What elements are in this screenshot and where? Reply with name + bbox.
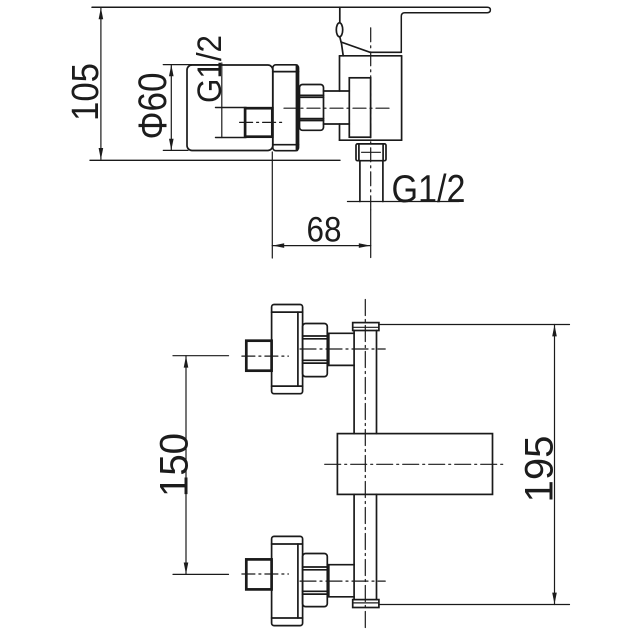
riser pipe right edge lower bbox=[376, 494, 378, 599]
lever front edge above pivot bbox=[339, 7, 341, 23]
dim 68 arrow left bbox=[273, 243, 285, 248]
escutcheon flange bbox=[273, 65, 299, 151]
mixer body block bbox=[337, 434, 492, 495]
knob face inner line bbox=[297, 312, 299, 386]
dim 68 arrow right bbox=[359, 243, 371, 248]
riser pipe left edge upper bbox=[353, 331, 355, 434]
dim phi60 bottom extension bbox=[163, 149, 188, 151]
svg-text:G1/2: G1/2 bbox=[191, 35, 229, 103]
valve knob bbox=[272, 536, 303, 625]
dim 150 arrow down bbox=[184, 563, 189, 575]
dim 150 bottom extension bbox=[173, 573, 229, 575]
dim 150 line bbox=[185, 356, 187, 575]
outlet pipe left edge bbox=[359, 161, 361, 202]
riser pipe right edge upper bbox=[376, 331, 378, 434]
flange inner bottom line bbox=[273, 144, 299, 146]
valve cylinder bottom bbox=[327, 564, 354, 566]
body right edge bbox=[401, 56, 403, 140]
body bottom edge bbox=[340, 139, 402, 141]
hex coupling nut bbox=[300, 85, 324, 131]
stem tick top bbox=[216, 107, 247, 109]
flange thick right face bbox=[296, 66, 299, 151]
dim 195 bottom extension bbox=[380, 604, 570, 606]
cartridge rectangle bbox=[349, 78, 370, 137]
stem centerline bbox=[242, 355, 289, 357]
outlet nut cross line bbox=[362, 151, 381, 153]
flange inner top line bbox=[273, 71, 299, 73]
inlet cylinder bottom bbox=[324, 123, 350, 125]
dim 68 extension left bbox=[271, 152, 273, 258]
handle knob bbox=[187, 65, 273, 151]
knob cap top line bbox=[272, 617, 303, 619]
dim phi60 line bbox=[170, 65, 172, 150]
knob cap top line bbox=[272, 311, 303, 313]
hex facet lines bbox=[303, 335, 328, 337]
bottom valve group (mirror) bbox=[242, 536, 385, 625]
stem tick bottom bbox=[216, 137, 247, 139]
body vertical centerline bbox=[370, 28, 372, 210]
wall top extension line and lever top edge bbox=[92, 7, 490, 52]
dim 195 arrow down bbox=[552, 593, 557, 605]
knob cap bottom line bbox=[272, 543, 303, 545]
dim 195 arrow up bbox=[552, 325, 557, 337]
valve hex nut bbox=[303, 324, 328, 377]
valve axis centerline bbox=[300, 348, 385, 350]
pipe bottom cap inner line bbox=[353, 602, 379, 604]
handle square stem bbox=[245, 108, 272, 137]
dim phi60 top extension bbox=[163, 64, 222, 66]
valve square stem bbox=[246, 559, 271, 589]
hex facet lines bbox=[303, 593, 328, 595]
svg-text:195: 195 bbox=[518, 436, 562, 503]
dim 105 arrow down bbox=[99, 148, 104, 160]
valve cylinder bottom bbox=[327, 364, 354, 366]
dim 195 line bbox=[554, 325, 556, 605]
outlet nut bbox=[356, 144, 386, 161]
dim 105 line bbox=[100, 8, 102, 159]
svg-text:Φ60: Φ60 bbox=[131, 73, 175, 140]
dim 195 top extension bbox=[380, 324, 570, 326]
valve axis centerline bbox=[284, 107, 389, 109]
lever left edge bbox=[341, 42, 343, 56]
dim phi60 arrow up bbox=[169, 65, 174, 76]
pivot link bbox=[340, 37, 341, 42]
svg-text:G1/2: G1/2 bbox=[392, 168, 466, 211]
svg-text:68: 68 bbox=[307, 211, 342, 250]
G1/2 outlet underline bbox=[348, 201, 460, 203]
valve cylinder joint bbox=[328, 333, 330, 365]
body block centerline bbox=[325, 463, 507, 465]
wall bottom line bbox=[90, 159, 340, 161]
lever pivot ellipse bbox=[336, 23, 342, 37]
stem centerline bbox=[242, 573, 289, 575]
outlet nut facet right bbox=[382, 144, 384, 161]
riser pipe centerline bbox=[364, 300, 366, 631]
G1/2 stem leader vertical bbox=[221, 63, 223, 138]
pipe top cap inner line bbox=[353, 326, 379, 328]
valve hex nut bbox=[303, 554, 328, 607]
knob face inner line bbox=[297, 544, 299, 618]
hex facet lines bbox=[300, 94, 324, 96]
centerline extension for 68 dim bbox=[370, 210, 372, 258]
outlet pipe right edge bbox=[382, 161, 384, 202]
knob cap bottom line bbox=[272, 385, 303, 387]
valve knob bbox=[272, 305, 303, 394]
valve cylinder joint bbox=[328, 565, 330, 597]
svg-text:105: 105 bbox=[65, 63, 107, 121]
pipe top cap bbox=[353, 323, 379, 331]
dim phi60 arrow down bbox=[169, 139, 174, 150]
body top edge bbox=[340, 55, 402, 57]
dim 68 line bbox=[272, 245, 370, 247]
top valve group bbox=[242, 305, 385, 394]
riser pipe left edge lower bbox=[353, 494, 355, 599]
valve axis centerline bbox=[300, 580, 385, 582]
pipe bottom cap bbox=[353, 600, 379, 608]
inlet cylinder top bbox=[324, 90, 350, 92]
dim 150 top extension bbox=[173, 355, 229, 357]
outlet nut facet left bbox=[358, 144, 360, 161]
body left edge upper bbox=[339, 56, 341, 91]
dim 105 arrow up bbox=[99, 8, 104, 20]
valve square stem bbox=[246, 341, 271, 371]
svg-text:150: 150 bbox=[153, 433, 197, 497]
stem centerline bbox=[240, 121, 286, 123]
valve cylinder top bbox=[327, 596, 354, 598]
lever underside diagonal bbox=[341, 42, 401, 52]
valve cylinder top bbox=[327, 332, 354, 334]
dim 150 arrow up bbox=[184, 356, 189, 368]
body left edge lower bbox=[339, 124, 341, 140]
